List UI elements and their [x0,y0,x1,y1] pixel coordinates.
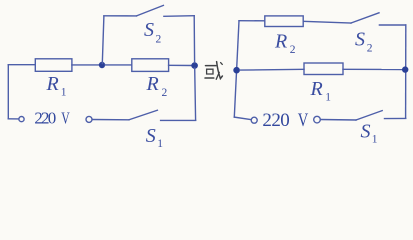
wire: node A up to S2 branch (left circuit) [102,16,104,64]
wire: left vertical edge (left circuit) [7,65,9,119]
svg-text:2: 2 [162,87,168,99]
wire: S2 branch right vertical down to node B (left circuit) [193,16,195,63]
node C: junction dot on left edge (right circuit) [233,67,240,74]
svg-text:R: R [146,73,159,95]
svg-text:V: V [61,109,70,128]
label: Chinese character "or" between circuits [205,62,222,80]
label S2 (right circuit) [355,29,373,55]
terminal: battery right terminal circle (left circuit) [86,116,92,122]
wire: S2 right contact (right circuit) [379,24,405,26]
wire: left vertical edge (right circuit) [234,21,239,117]
svg-text:2: 2 [156,34,162,46]
svg-text:R: R [46,73,59,95]
svg-text:S: S [361,120,371,142]
svg-text:S: S [355,29,365,51]
svg-text:S: S [144,19,154,41]
node B: junction dot right of R2 (left circuit) [191,62,198,69]
svg-text:R: R [274,31,287,53]
wire: node C to R1 (right circuit) [240,68,304,71]
svg-text:1: 1 [157,138,163,149]
wire: right vertical edge (right circuit) [405,25,407,118]
svg-text:1: 1 [325,92,331,104]
switch S2 blade (left circuit) [137,5,164,16]
label R1 (right circuit) [310,78,332,104]
label: 220 V source value (left circuit) [34,109,70,128]
switch S1 blade (left circuit) [129,110,157,120]
wire: top-left horizontal into R2 (right circuit) [239,20,265,22]
wire: right vertical edge node B to bottom corner (left circuit) [194,68,197,120]
wire: S1 right contact to bottom-right corner (right circuit) [385,117,406,119]
svg-text:1: 1 [372,134,378,146]
node D: junction dot on right edge (right circuit) [402,66,408,72]
switch S1 blade (right circuit) [356,111,382,120]
wire: terminal to S1 pivot (right circuit) [321,119,356,122]
resistor R2 (left circuit) [132,59,169,72]
label R2 (right circuit) [274,31,296,57]
wire: R2 to node B (left circuit) [169,64,192,66]
svg-text:220: 220 [262,110,289,131]
wire: node A to R2 (left circuit) [105,64,132,66]
resistor R1 (left circuit) [35,59,72,72]
wire: R2 to S2 pivot (right circuit) [303,21,351,23]
terminal: battery right terminal circle (right circuit) [314,116,321,123]
wire: S2 branch top-left horizontal (left circuit) [104,15,137,17]
resistor R1 (right circuit) [304,63,343,75]
wire: R1 to node A (left circuit) [72,64,99,66]
label S1 (left circuit) [146,125,163,150]
svg-text:R: R [310,78,323,100]
wire: R1 to node D (right circuit) [343,68,402,70]
label S2 (left circuit) [144,19,162,46]
svg-text:220: 220 [34,109,56,128]
svg-text:2: 2 [367,43,373,55]
terminal: battery left terminal circle (right circuit) [251,117,257,123]
node A: junction dot between R1 and R2 (left circuit) [99,62,105,68]
wire: S1 pivot to battery right terminal (left circuit) [92,119,129,121]
label: 220 V source value (right circuit) [262,110,308,131]
svg-text:V: V [298,110,309,131]
label R2 (left circuit) [146,73,168,99]
wire: bottom-right horizontal to S1 contact (left circuit) [161,119,196,121]
resistor R2 (right circuit) [265,16,303,27]
svg-text:1: 1 [61,86,67,98]
svg-text:S: S [146,125,156,147]
wire: bottom-left stub to terminal (left circuit) [8,118,18,120]
wire: S2 right contact (left circuit) [164,15,194,18]
svg-text:2: 2 [290,44,296,56]
wire: top-left horizontal into R1 (left circuit) [8,64,35,66]
label R1 (left circuit) [46,73,67,99]
label S1 (right circuit) [361,120,378,145]
switch S2 blade (right circuit) [351,13,379,23]
terminal: battery left terminal circle (left circuit) [19,117,24,122]
wire: bottom-left stub to terminal (right circuit) [234,117,251,120]
